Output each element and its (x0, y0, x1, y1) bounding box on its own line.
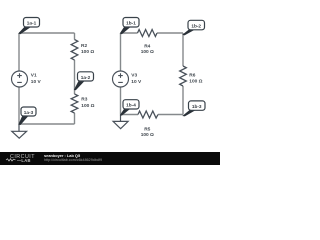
svg-text:R5: R5 (144, 127, 150, 133)
svg-text:1a-2: 1a-2 (81, 75, 91, 80)
svg-text:100 Ω: 100 Ω (189, 79, 202, 85)
svg-text:R3: R3 (81, 96, 87, 102)
svg-text:10 V: 10 V (31, 79, 42, 85)
svg-text:V1: V1 (31, 72, 37, 78)
svg-text:100 Ω: 100 Ω (141, 132, 154, 138)
svg-text:seanboyer : Lab Q5: seanboyer : Lab Q5 (44, 153, 81, 158)
svg-text:http://circuitlab.com/c6k48629: http://circuitlab.com/c6k48629dbdf9 (44, 158, 102, 162)
svg-text:10 V: 10 V (131, 79, 142, 85)
svg-text:100 Ω: 100 Ω (81, 49, 94, 55)
svg-text:100 Ω: 100 Ω (141, 49, 154, 55)
svg-text:1b-3: 1b-3 (192, 104, 202, 109)
svg-text:100 Ω: 100 Ω (81, 103, 94, 109)
svg-text:R4: R4 (144, 44, 150, 50)
svg-text:R6: R6 (189, 72, 195, 78)
svg-text:1b-2: 1b-2 (191, 23, 201, 28)
svg-text:R2: R2 (81, 43, 87, 49)
svg-text:1b-1: 1b-1 (126, 21, 136, 26)
svg-text:1a-1: 1a-1 (27, 21, 37, 26)
svg-text:—LAB: —LAB (17, 158, 31, 163)
svg-text:1b-4: 1b-4 (126, 103, 136, 108)
svg-text:1a-3: 1a-3 (24, 110, 34, 115)
svg-text:V3: V3 (131, 72, 137, 78)
